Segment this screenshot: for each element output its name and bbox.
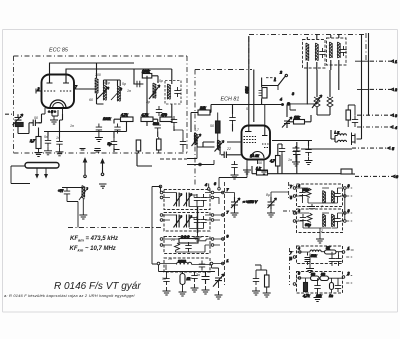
tube ECH81 triode anode bar (262, 126, 268, 136)
capacitor k2 (56, 138, 62, 148)
B+ rails vertical (362, 33, 369, 130)
ferrite ground (82, 199, 84, 211)
terminal stub 4 (208, 184, 210, 189)
grounds bottom (163, 287, 171, 295)
svg-text:1: 1 (395, 60, 397, 64)
right rail wires to dashes (213, 193, 225, 264)
svg-text:2·2·2: 2·2·2 (180, 235, 189, 239)
svg-text:50: 50 (34, 116, 38, 120)
M1 wires (163, 193, 212, 207)
svg-text:a: R 0146 F készülék kapcsol: a: R 0146 F készülék kapcsolási rajza az… (4, 293, 135, 298)
resistor 100k (142, 74, 152, 79)
tick marks above FM box bottom (94, 151, 101, 153)
svg-text:100: 100 (95, 73, 101, 77)
svg-text:4: 4 (205, 183, 207, 187)
R3 cap stack left (305, 254, 311, 265)
wire resistor vert (217, 113, 219, 143)
jack Lz coil a (338, 134, 347, 136)
R3 cap mid (329, 255, 335, 265)
wires right of tube (278, 142, 297, 174)
wire jack (331, 130, 362, 142)
R4 resistor b oval (320, 276, 329, 281)
M1 coil a with arrow (174, 193, 183, 207)
svg-text:1n: 1n (329, 294, 333, 298)
mid column right dashed rail (224, 182, 226, 285)
R4 resistor oval vertical (330, 283, 334, 290)
svg-text:470: 470 (161, 113, 167, 117)
tube ECH81 grid right (262, 144, 270, 148)
R4 cap a (314, 282, 320, 292)
tube ECC85 anode right (63, 75, 69, 84)
trimmer block (262, 88, 267, 99)
cap a (163, 275, 169, 285)
wire resistor to stub (352, 173, 355, 175)
capacitor 500 (155, 122, 161, 132)
electrolytic cap b (268, 197, 277, 209)
resistor 22k (198, 110, 210, 115)
capacitor C12 (171, 116, 177, 126)
box R3 (297, 246, 343, 264)
svg-text:05M: 05M (245, 87, 249, 94)
wires row drops (114, 76, 174, 153)
left rail terminal top (159, 185, 162, 188)
svg-text:60p: 60p (104, 81, 110, 85)
cap under tube (231, 161, 237, 171)
between-column resistor (265, 275, 270, 287)
trimmer arrow across T1 (97, 87, 109, 99)
IF filter 10.7 box (165, 81, 181, 105)
tube ECC85 grid left (44, 90, 56, 92)
svg-text:4,7k: 4,7k (121, 113, 128, 117)
box R1 (297, 184, 343, 207)
arrow through osc coil (312, 95, 322, 108)
capacitor 170p (156, 106, 162, 116)
svg-text:3: 3 (348, 184, 350, 188)
svg-text:≈ +250 V: ≈ +250 V (243, 200, 258, 204)
AM input coil B with arrow (215, 140, 225, 152)
M1 cap b (200, 194, 206, 204)
svg-text:2: 2 (394, 88, 397, 92)
R1 coil small (306, 188, 311, 197)
tube ECC85 bottom pins (45, 108, 63, 116)
ferrite wires (62, 188, 83, 228)
svg-text:2: 2 (320, 229, 323, 233)
wire anode drops (97, 63, 172, 84)
wire L1 lead (97, 93, 104, 104)
capacitor C22 (279, 145, 285, 155)
wire mid rail (44, 69, 158, 132)
M3 zigzag resistor (175, 243, 180, 250)
R2 transformer coils (323, 214, 335, 227)
M1 terminals (160, 191, 163, 194)
cap b (191, 272, 197, 282)
capacitor C5 (133, 81, 143, 87)
svg-text:5: 5 (392, 147, 394, 151)
svg-text:ECH 81: ECH 81 (221, 97, 240, 103)
dipole antenna bar (25, 163, 59, 169)
tube ECH81 cathode arc (251, 152, 264, 159)
svg-text:6: 6 (396, 175, 398, 179)
svg-text:1n: 1n (127, 89, 131, 93)
filter coils (168, 84, 171, 99)
ground under arrow b (99, 184, 107, 188)
wire third rail (261, 78, 263, 105)
resistor 1k (257, 171, 268, 176)
trimmer d (213, 274, 224, 287)
svg-text:5p: 5p (122, 82, 126, 86)
wire FM IF in (187, 147, 197, 159)
capacitor to ground b (114, 124, 120, 134)
svg-text:1A 3k: 1A 3k (250, 154, 259, 158)
ground k1 (44, 147, 52, 155)
resistor out (341, 169, 352, 174)
svg-text:22k: 22k (199, 106, 206, 110)
R3 coil horizontal (310, 250, 321, 252)
M3 terminals (160, 238, 163, 241)
wire ECH81 anode up (264, 105, 266, 126)
resistor near rail (346, 110, 351, 120)
wire T1 tops (104, 80, 121, 86)
AM osc coil pair b (327, 97, 333, 107)
svg-text:ECC 85: ECC 85 (49, 48, 69, 54)
electrolytic cap +250V a (231, 197, 240, 209)
AM box bottom boundary (194, 70, 196, 186)
left input terminal stub (5, 113, 14, 115)
resistor 4.7k b (141, 117, 153, 122)
R2 ground (319, 228, 321, 235)
svg-text:L z: L z (335, 131, 340, 135)
M4 wires (160, 264, 210, 271)
R2 cap b (334, 215, 340, 225)
resistor Rv2 (157, 139, 162, 150)
ground k2 (56, 148, 64, 156)
svg-text:+ 5 +: + 5 + (48, 110, 56, 114)
svg-text:5: 5 (193, 217, 195, 221)
ground cap left (292, 158, 300, 166)
box M1 (164, 190, 210, 210)
svg-text:KFam = 473,5 kHz: KFam = 473,5 kHz (70, 236, 118, 243)
svg-text:10k: 10k (316, 294, 322, 298)
M2 coil a with arrow (174, 215, 183, 228)
band filter F2 coil a (330, 42, 333, 58)
svg-text:6: 6 (214, 182, 216, 186)
M1 coil b with arrow (184, 193, 193, 207)
svg-text:5: 5 (246, 107, 248, 111)
right-mid dashed stubs (283, 182, 300, 285)
svg-text:1n: 1n (288, 158, 292, 162)
dipole left wire (11, 166, 30, 184)
svg-text:3k: 3k (326, 246, 330, 250)
capacitor C23 big (293, 146, 301, 162)
terminal stub t1 (370, 60, 391, 62)
resistor dark vertical (216, 121, 221, 133)
svg-text:50k: 50k (311, 254, 317, 258)
extra value labels (34, 73, 324, 281)
M2 cap a (194, 216, 200, 226)
svg-text:4: 4 (395, 126, 397, 130)
svg-text:5p: 5p (108, 142, 112, 146)
band filter F2 coil b (338, 42, 341, 58)
ground cap under tube (231, 171, 239, 179)
box M2 (164, 213, 210, 232)
R3 cap right (335, 255, 341, 265)
svg-text:50: 50 (162, 277, 166, 281)
M2 cap b (200, 216, 206, 226)
svg-text:15k: 15k (294, 116, 300, 120)
M2 wires (163, 215, 212, 229)
box M3 (164, 237, 210, 254)
svg-text:9: 9 (290, 257, 292, 261)
tube ECH81 grids (244, 137, 257, 143)
wires under filters (307, 35, 339, 105)
R3 terminals (299, 251, 302, 254)
svg-text:1k: 1k (187, 277, 191, 281)
wires electrolytics (225, 192, 289, 197)
svg-text:100k: 100k (103, 117, 111, 121)
wire grid rail (211, 105, 283, 113)
svg-text:50: 50 (311, 273, 315, 277)
R3 resistor oval (325, 250, 337, 254)
capacitor to ground a (96, 124, 102, 134)
resistor 270 (36, 137, 41, 149)
box R4 (297, 272, 343, 294)
capacitor anode out (305, 146, 311, 156)
grounds between (252, 287, 260, 295)
svg-text:8µ: 8µ (266, 193, 270, 197)
wires between (255, 265, 267, 289)
svg-text:9: 9 (227, 235, 229, 239)
right col outer terminal stubs (346, 188, 354, 283)
F1 cap (319, 48, 325, 58)
tube ECH81 envelope (242, 126, 271, 160)
svg-text:1: 1 (348, 247, 350, 251)
ceramic cap (31, 120, 42, 127)
resistor 4.7k a (121, 117, 134, 122)
box M4 (164, 258, 210, 272)
AM input coil A with arrow (192, 133, 202, 146)
svg-text:5: 5 (193, 194, 195, 198)
ground a (95, 134, 103, 142)
FM tuner box U-FM (14, 56, 188, 153)
R1 cap b (334, 190, 340, 200)
ground electrolytic b (267, 209, 275, 217)
ground electrolytic a (231, 209, 239, 217)
wire links verticals (355, 61, 369, 89)
ground M2 (194, 233, 202, 241)
terminal stub t5 (352, 147, 388, 149)
M4 cap (199, 261, 205, 271)
wire AVC rail vertical (248, 36, 250, 127)
wire bottom rail (252, 166, 296, 174)
R1R2 coupling cap (309, 204, 318, 209)
svg-text:3n: 3n (196, 273, 200, 277)
M1 cap a (194, 194, 200, 204)
resistor Rv (136, 140, 141, 151)
band filter F1 coil b (316, 43, 319, 61)
wire anode out (272, 141, 312, 147)
FM box inner bottom edge (160, 158, 187, 160)
band filter box F2 (327, 38, 347, 65)
left col stub terminals (289, 185, 295, 257)
resistor 4.7 vertical (276, 156, 281, 167)
terminal stub t2 (370, 88, 391, 90)
osc section below M4: resistor oval (180, 274, 185, 285)
tube ECC85 envelope (42, 75, 75, 109)
terminal stub t3 (357, 114, 391, 116)
wires input (18, 123, 31, 134)
svg-text:4: 4 (298, 184, 300, 188)
F2 cap (340, 46, 346, 56)
terminals on dash rail (222, 191, 225, 194)
between-column cap (253, 275, 259, 285)
R4 cap c (335, 282, 341, 292)
svg-text:22: 22 (226, 147, 231, 151)
svg-text:4: 4 (298, 209, 300, 213)
arrow on T1 secondary (111, 88, 122, 100)
R4 resistor a oval (311, 276, 320, 281)
svg-text:R 0146 F/s VT gyár: R 0146 F/s VT gyár (54, 281, 141, 292)
wire R1-R2 right link (344, 189, 346, 219)
cap near rail (352, 116, 358, 126)
M4 terminals (157, 262, 160, 265)
left rail of column (152, 187, 161, 265)
R2 coil small (307, 213, 312, 222)
ground 270 (35, 149, 43, 157)
jack plug bar (352, 133, 356, 146)
terminal IF feed (218, 188, 221, 191)
R2 terminals (293, 212, 296, 215)
svg-text:4: 4 (280, 98, 282, 102)
tube ECC85 grid right (60, 90, 72, 92)
svg-text:1: 1 (274, 78, 276, 82)
wire out rail (296, 173, 341, 175)
ferrite antenna coil (79, 186, 88, 201)
R2 wires (296, 213, 344, 228)
band filter F1 coil a (306, 43, 309, 61)
AM osc coil pair a (314, 97, 320, 107)
transformer T1 secondary (118, 86, 121, 101)
svg-text:5n: 5n (44, 135, 48, 139)
tube ECH81 anode bar (245, 126, 252, 132)
dash stub to switch (266, 77, 276, 79)
svg-text:6: 6 (290, 196, 292, 200)
wire cathode down (39, 114, 46, 137)
tube ECC85 cathode arc (50, 100, 66, 108)
resistor 15k (294, 120, 305, 125)
R4 resistor dark vertical (304, 283, 308, 292)
FM feed arrow b (101, 160, 104, 176)
svg-text:50: 50 (321, 273, 325, 277)
jack Lz coil b (338, 140, 347, 142)
R4 wires (296, 278, 343, 293)
link wire from FM box down (137, 153, 152, 166)
wires osc coils (317, 70, 330, 115)
svg-text:60: 60 (89, 98, 93, 102)
ferrite antenna dash link (68, 227, 161, 229)
terminal lower in (199, 163, 202, 166)
switch S0 diagonal (278, 74, 288, 85)
capacitor to ground left (293, 146, 300, 158)
band filter box F1 (303, 40, 326, 69)
wire S0 (262, 86, 278, 91)
resistor 470 (160, 117, 172, 122)
svg-text:500: 500 (153, 122, 159, 126)
svg-text:KFkm ~ 10,7 MHz: KFkm ~ 10,7 MHz (70, 246, 116, 253)
ground ticks on box bottom (80, 149, 120, 151)
svg-text:2: 2 (37, 87, 40, 91)
ground under tube (50, 116, 58, 124)
svg-text:4: 4 (298, 247, 300, 251)
M2 terminals (160, 214, 163, 217)
svg-text:60p: 60p (305, 223, 311, 227)
ferrite antenna cap a (64, 188, 70, 198)
box R2 (297, 209, 343, 233)
M3 wires (163, 239, 212, 252)
terminal pair 4-8 (282, 103, 290, 106)
svg-text:100k: 100k (142, 70, 150, 74)
FM feed arrow a (84, 159, 87, 178)
dipole feeder lines (36, 168, 48, 178)
AM tuner boundary (195, 33, 366, 70)
svg-text:1n: 1n (70, 124, 74, 128)
resistor dark input (15, 123, 23, 127)
ground under tube a (243, 166, 251, 174)
R4 terminals (298, 277, 301, 280)
svg-text:50: 50 (210, 124, 214, 128)
R1 cap a (299, 189, 305, 199)
transformer T1 coils (104, 85, 107, 100)
trimmer input (13, 114, 24, 125)
svg-text:3: 3 (348, 209, 350, 213)
coil L1 (95, 78, 98, 93)
svg-text:3: 3 (395, 114, 397, 118)
tube ECH81 bottom pins (247, 160, 264, 167)
svg-text:2: 2 (279, 71, 282, 75)
svg-text:15p: 15p (157, 79, 163, 83)
M4 oscillator coil (177, 262, 192, 264)
svg-text:50: 50 (258, 161, 262, 165)
svg-text:1n: 1n (168, 257, 172, 261)
cap c big (202, 272, 210, 284)
wire 4-8 to coils (290, 104, 317, 110)
svg-text:60p: 60p (303, 188, 309, 192)
R3 ground below (309, 254, 311, 265)
R1 transformer coils (323, 191, 335, 204)
wires near rail (348, 105, 355, 127)
trimmer T2 (282, 117, 292, 128)
M1M2 ground link (197, 207, 199, 234)
wire pins to ground (48, 114, 63, 138)
capacitor edge (180, 138, 186, 148)
svg-text:3p: 3p (146, 100, 150, 104)
R1 terminals (293, 187, 296, 190)
filter cap (174, 87, 180, 97)
capacitor C20 (229, 114, 235, 124)
svg-text:9999: 9999 (178, 260, 186, 264)
R2 cap a (300, 214, 306, 224)
svg-text:2: 2 (347, 272, 350, 276)
wire second rail vertical (253, 70, 255, 123)
R1 wires (296, 188, 344, 203)
wire coil to grid (197, 142, 241, 155)
terminal stub t4 (357, 126, 391, 128)
ground under tube b (260, 166, 268, 174)
wires bottom cluster (159, 265, 219, 288)
svg-text:20: 20 (170, 238, 175, 242)
tube ECC85 anode left (47, 75, 53, 84)
R4 ground (317, 292, 319, 294)
capacitor 5p (111, 138, 117, 148)
